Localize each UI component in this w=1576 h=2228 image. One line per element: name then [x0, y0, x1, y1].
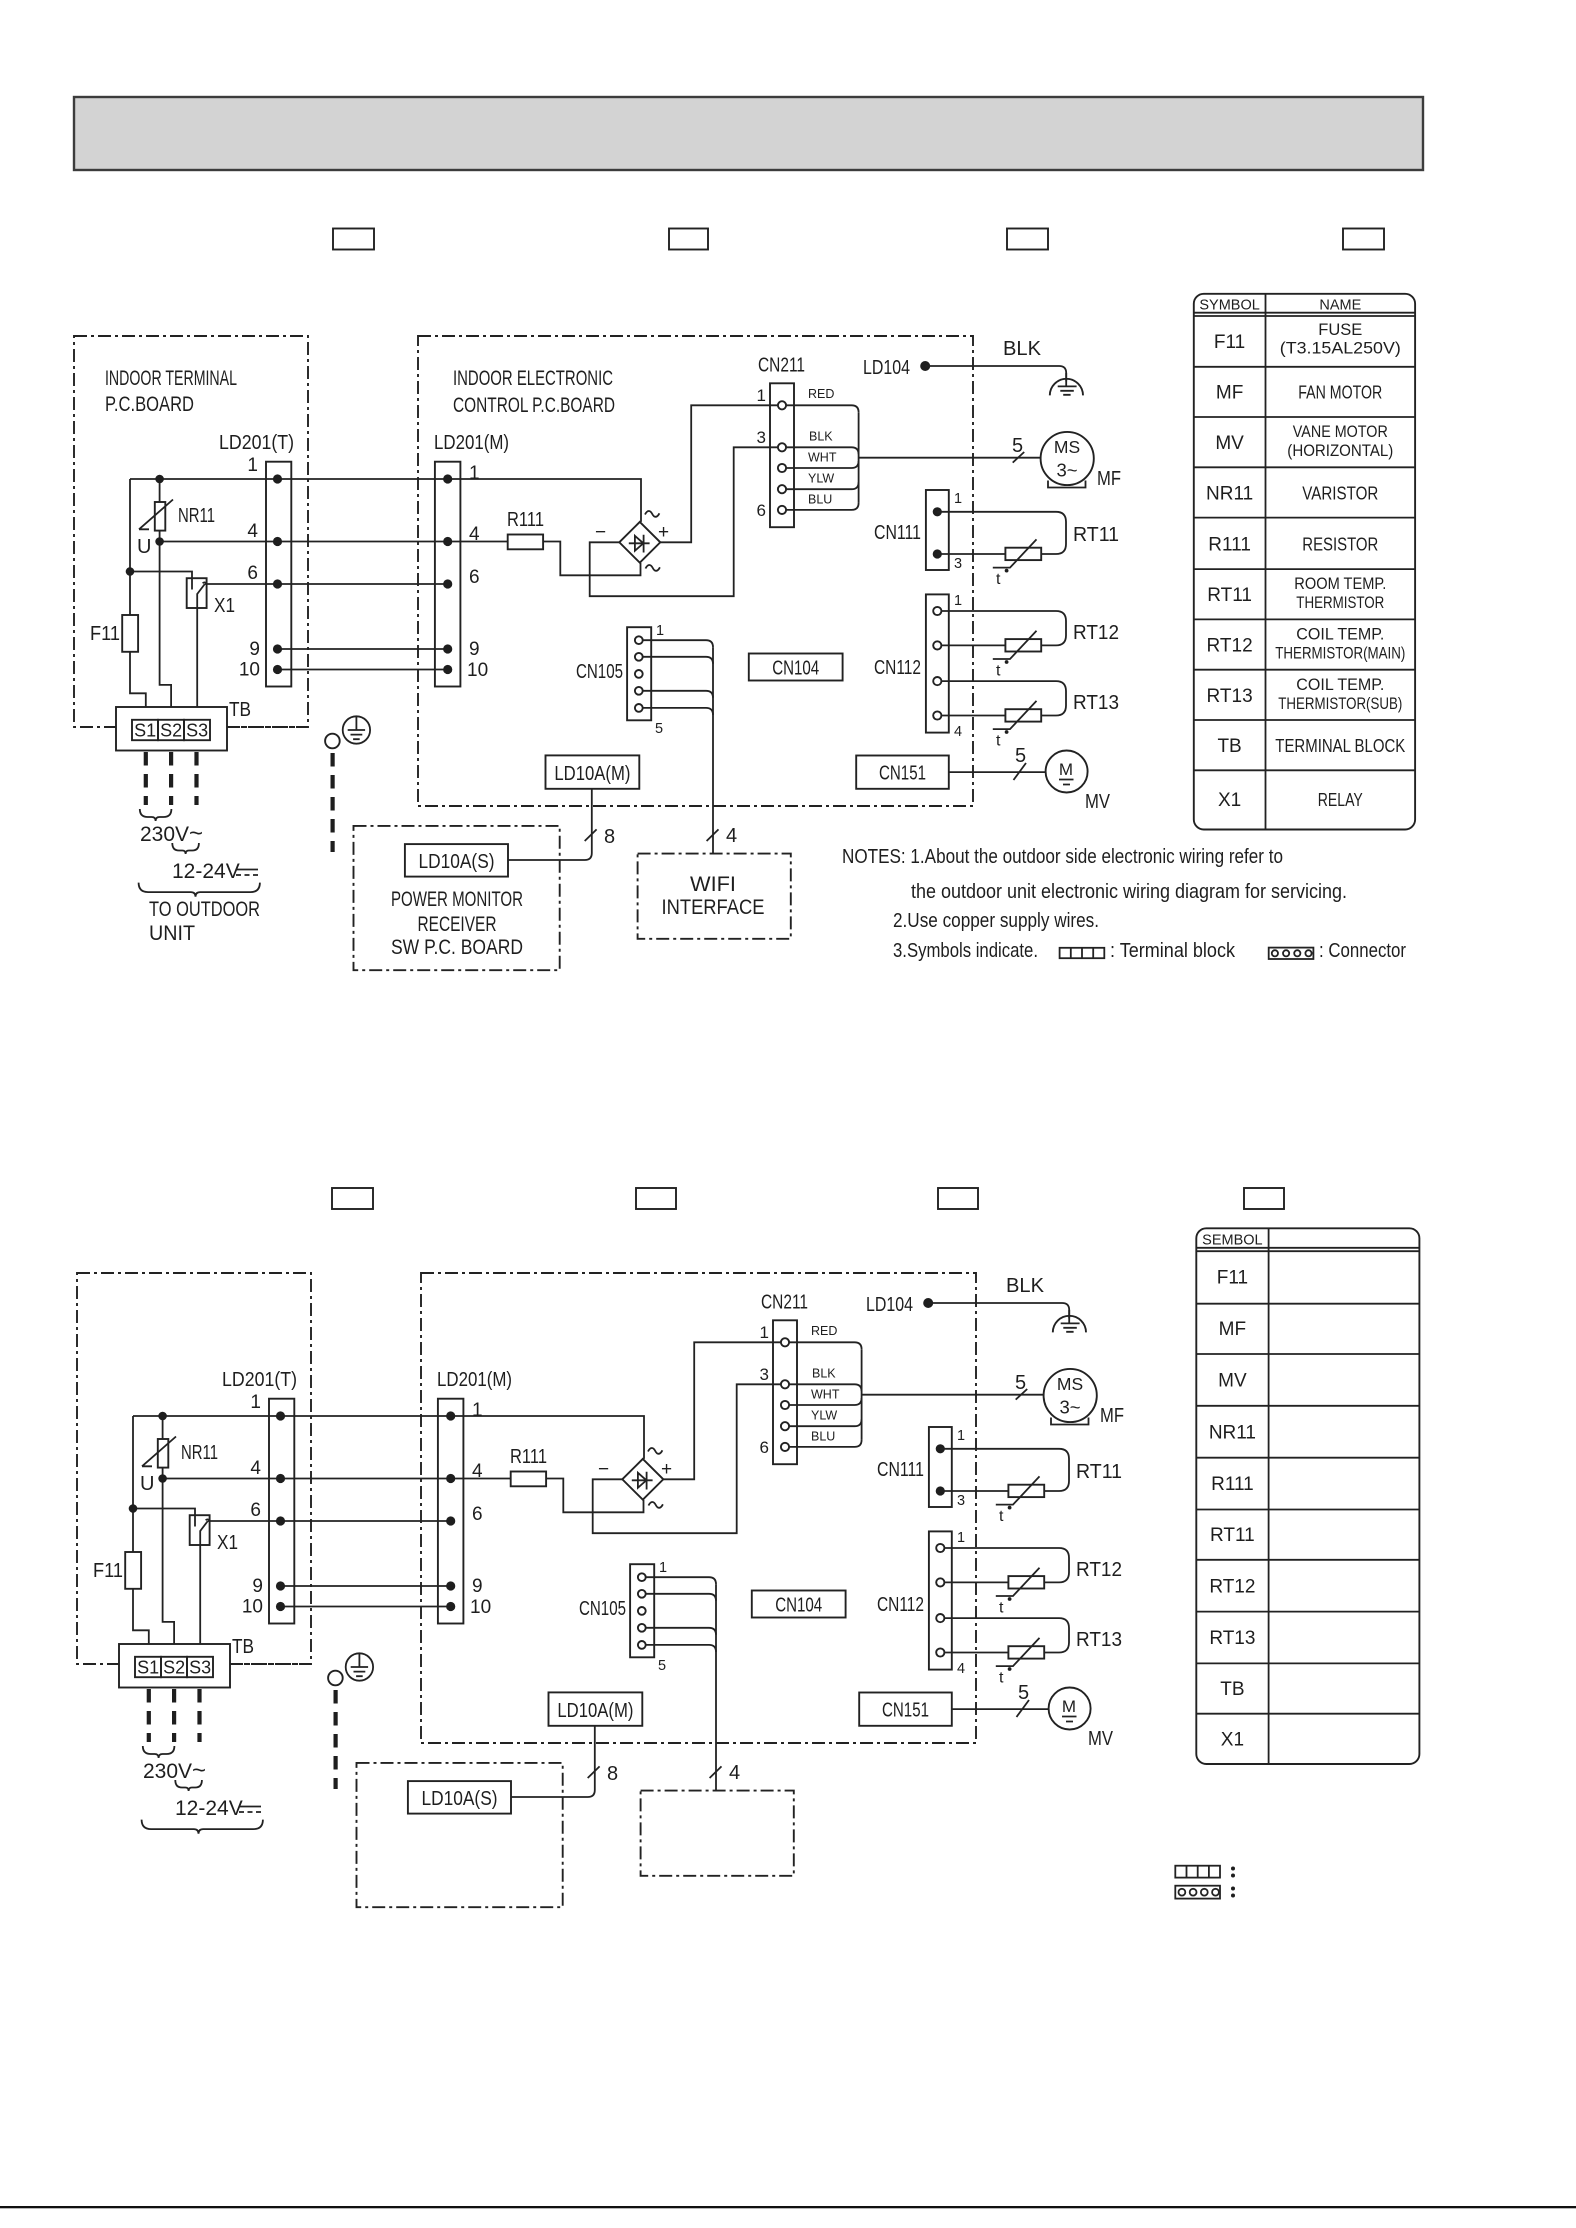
svg-text:2.Use copper supply wires.: 2.Use copper supply wires. [893, 910, 1099, 932]
symbol table bottom [1196, 1228, 1419, 1764]
revision box row 1d [1343, 229, 1384, 250]
svg-text:3.Symbols indicate.: 3.Symbols indicate. [893, 940, 1038, 962]
svg-text:RECEIVER: RECEIVER [418, 913, 497, 936]
svg-text:WIFI: WIFI [690, 873, 736, 896]
svg-text:COIL TEMP.: COIL TEMP. [1296, 676, 1384, 694]
revision box row 1a [333, 229, 374, 250]
svg-text:FUSE: FUSE [1318, 321, 1362, 339]
svg-text:(T3.15AL250V): (T3.15AL250V) [1280, 340, 1401, 358]
svg-text:RT13: RT13 [1209, 1628, 1255, 1649]
revision box row 2a [332, 1188, 373, 1209]
svg-text:: Connector: : Connector [1319, 940, 1406, 962]
svg-text:X1: X1 [1221, 1730, 1244, 1751]
svg-text:the outdoor unit electronic wi: the outdoor unit electronic wiring diagr… [911, 881, 1347, 903]
svg-text:SEMBOL: SEMBOL [1202, 1233, 1262, 1249]
svg-text:P.C.BOARD: P.C.BOARD [105, 393, 194, 416]
svg-text:SW P.C. BOARD: SW P.C. BOARD [391, 936, 523, 959]
legend terminal block colon [1231, 1867, 1235, 1871]
notes terminal block symbol [1060, 948, 1105, 958]
svg-text:NAME: NAME [1319, 298, 1361, 314]
svg-text:NR11: NR11 [1206, 484, 1253, 505]
svg-text:TO OUTDOOR: TO OUTDOOR [149, 898, 260, 921]
svg-text:RT13: RT13 [1207, 686, 1253, 707]
svg-text:VANE MOTOR: VANE MOTOR [1293, 423, 1388, 441]
svg-text:THERMISTOR: THERMISTOR [1296, 594, 1384, 612]
legend terminal block symbol [1175, 1866, 1220, 1878]
svg-text:ROOM TEMP.: ROOM TEMP. [1294, 575, 1386, 593]
gray title bar [74, 97, 1423, 170]
svg-text:MF: MF [1216, 383, 1243, 404]
svg-text:F11: F11 [1217, 1268, 1248, 1289]
svg-text:COIL TEMP.: COIL TEMP. [1296, 626, 1384, 644]
svg-text:MV: MV [1215, 433, 1244, 454]
svg-text:FAN MOTOR: FAN MOTOR [1298, 383, 1382, 403]
svg-text:THERMISTOR(SUB): THERMISTOR(SUB) [1278, 695, 1402, 713]
top wiring diagram instance [74, 336, 1121, 970]
svg-text:SYMBOL: SYMBOL [1199, 298, 1259, 314]
svg-text:RT11: RT11 [1207, 585, 1252, 606]
svg-text:R111: R111 [1211, 1474, 1254, 1495]
svg-text:MV: MV [1218, 1371, 1247, 1392]
svg-text:TB: TB [1217, 736, 1241, 757]
revision box row 1b [669, 229, 708, 250]
svg-text:NOTES: 1.About the outdoor sid: NOTES: 1.About the outdoor side electron… [842, 846, 1283, 868]
symbol table top [1194, 294, 1415, 830]
svg-text:INDOOR ELECTRONIC: INDOOR ELECTRONIC [453, 367, 613, 390]
svg-text:RELAY: RELAY [1318, 790, 1363, 810]
svg-text:THERMISTOR(MAIN): THERMISTOR(MAIN) [1275, 645, 1405, 663]
svg-text:RT11: RT11 [1210, 1525, 1255, 1546]
svg-text:POWER MONITOR: POWER MONITOR [391, 888, 523, 911]
svg-text:INTERFACE: INTERFACE [662, 896, 765, 919]
svg-text:RT12: RT12 [1207, 636, 1253, 657]
svg-text:VARISTOR: VARISTOR [1302, 484, 1378, 504]
svg-text:TERMINAL BLOCK: TERMINAL BLOCK [1275, 736, 1405, 756]
svg-text:RT12: RT12 [1209, 1577, 1255, 1598]
svg-text:NR11: NR11 [1209, 1423, 1256, 1444]
notes connector symbol [1269, 948, 1314, 959]
revision box row 1c [1007, 229, 1048, 250]
svg-text:MF: MF [1219, 1319, 1246, 1340]
svg-text:F11: F11 [1214, 332, 1245, 353]
bottom wiring diagram instance [77, 1273, 1124, 1907]
svg-text:CONTROL P.C.BOARD: CONTROL P.C.BOARD [453, 394, 615, 417]
legend connector colon [1231, 1887, 1235, 1891]
svg-text:RESISTOR: RESISTOR [1302, 535, 1378, 555]
svg-text:UNIT: UNIT [149, 922, 195, 945]
legend connector symbol [1175, 1886, 1220, 1899]
svg-text:INDOOR TERMINAL: INDOOR TERMINAL [105, 367, 237, 390]
revision box row 2b [636, 1188, 676, 1209]
revision box row 2c [938, 1188, 978, 1209]
svg-text:X1: X1 [1218, 790, 1241, 811]
svg-text:(HORIZONTAL): (HORIZONTAL) [1287, 442, 1393, 460]
page footer rule [0, 2206, 1576, 2208]
svg-text:: Terminal block: : Terminal block [1110, 940, 1236, 962]
svg-text:R111: R111 [1208, 535, 1251, 556]
revision box row 2d [1244, 1188, 1284, 1209]
svg-text:TB: TB [1220, 1679, 1244, 1700]
